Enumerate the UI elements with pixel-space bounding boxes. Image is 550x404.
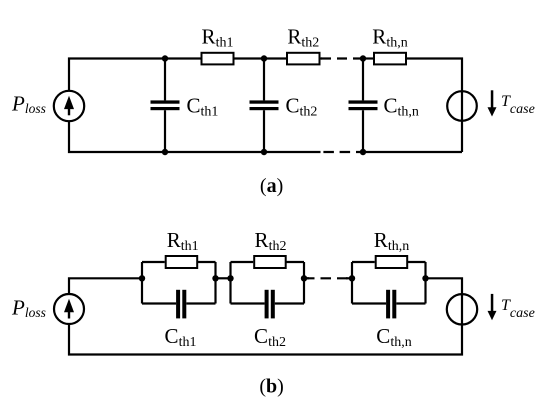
svg-text:Rth,n: Rth,n [372, 25, 407, 51]
svg-text:Rth,n: Rth,n [374, 228, 409, 254]
svg-text:Rth1: Rth1 [167, 228, 199, 254]
svg-text:Cth1: Cth1 [165, 324, 197, 350]
svg-text:Ploss: Ploss [11, 296, 46, 321]
svg-text:(a): (a) [260, 175, 283, 197]
svg-text:(b): (b) [259, 376, 283, 398]
svg-text:Cth,n: Cth,n [384, 93, 419, 119]
svg-text:Ploss: Ploss [11, 92, 46, 117]
svg-text:Rth2: Rth2 [287, 25, 319, 51]
svg-text:Rth1: Rth1 [202, 25, 234, 51]
svg-text:Cth1: Cth1 [187, 93, 219, 119]
svg-text:Tcase: Tcase [501, 297, 535, 321]
svg-text:Cth2: Cth2 [254, 324, 286, 350]
svg-text:Tcase: Tcase [501, 93, 535, 117]
svg-text:Rth2: Rth2 [255, 228, 287, 254]
svg-text:Cth2: Cth2 [286, 93, 318, 119]
svg-text:Cth,n: Cth,n [376, 324, 411, 350]
